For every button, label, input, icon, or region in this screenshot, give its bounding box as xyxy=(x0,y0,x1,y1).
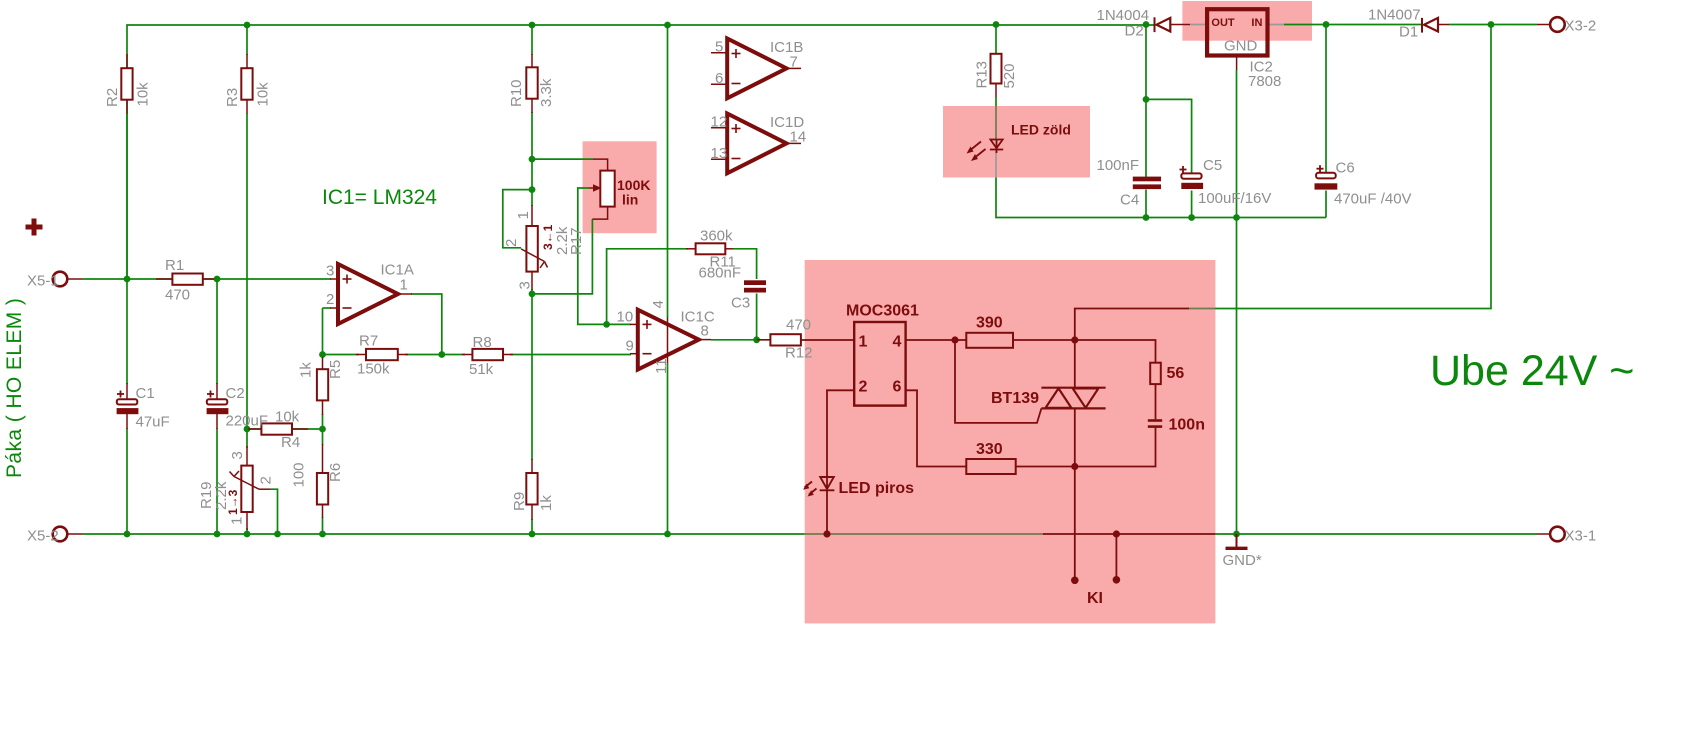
svg-text:OUT: OUT xyxy=(1211,17,1235,29)
svg-text:C5: C5 xyxy=(1203,157,1222,174)
wire: C5 branch xyxy=(1146,99,1192,173)
wire gate branch xyxy=(955,340,1041,423)
capacitor C2 220uF xyxy=(216,383,218,400)
wire: bottom rail under pink box (olive) xyxy=(805,533,1043,535)
wire LED piros to rail xyxy=(826,477,828,490)
resistor R13 520 xyxy=(995,53,997,56)
svg-text:470: 470 xyxy=(786,317,811,334)
svg-text:10k: 10k xyxy=(255,82,272,107)
node rail C2 xyxy=(214,531,221,538)
wire 56 to 100n xyxy=(1155,384,1157,419)
node R17 pin1/wiper xyxy=(529,186,536,193)
node rail GND xyxy=(1233,531,1240,538)
wire: 100K bottom route xyxy=(532,219,592,294)
wire: IC1A pin2 horizontal xyxy=(323,307,332,309)
wire: C4/C5/C6 bottom rail xyxy=(1146,217,1326,219)
wire triac MT2 down through 330 node to rail and KI xyxy=(1074,408,1076,580)
svg-text:lin: lin xyxy=(622,192,638,208)
diode D2 1N4004 xyxy=(1154,17,1156,32)
svg-text:680nF: 680nF xyxy=(699,265,742,282)
svg-text:14: 14 xyxy=(790,129,807,146)
node C4 rail xyxy=(1143,214,1150,221)
capacitor C1 47uF xyxy=(126,383,128,400)
wire 100n bottom to 330 node xyxy=(1075,428,1156,467)
svg-text:3.3k: 3.3k xyxy=(538,78,555,107)
svg-text:47uF: 47uF xyxy=(136,414,170,431)
wire: top +24V rail xyxy=(127,25,1154,279)
potentiometer R19 2.2k xyxy=(246,446,248,466)
svg-text:2: 2 xyxy=(503,239,520,247)
svg-text:GND*: GND* xyxy=(1223,552,1262,569)
svg-text:100nF: 100nF xyxy=(1097,157,1140,174)
svg-text:R7: R7 xyxy=(359,333,378,350)
resistor R8 51k xyxy=(462,354,472,356)
node top rail at D2 xyxy=(1143,21,1150,28)
wire: R13 column xyxy=(995,25,997,55)
svg-text:C1: C1 xyxy=(136,385,155,402)
node rail wiper xyxy=(274,531,281,538)
potentiometer 100K lin (overlay) xyxy=(593,159,608,171)
wire: D2 to IC2 OUT (grey pin segment) xyxy=(1190,24,1207,26)
wire: R13 to LED (olive under pink) xyxy=(995,106,997,140)
wire stubs IC1C out xyxy=(805,339,807,341)
svg-text:150k: 150k xyxy=(357,361,390,378)
svg-text:R8: R8 xyxy=(473,334,492,351)
svg-text:10: 10 xyxy=(617,309,634,326)
node top rail at R13 xyxy=(993,21,1000,28)
wire snubber top xyxy=(1075,340,1156,363)
node top rail at X3-2 drop xyxy=(1488,21,1495,28)
highlight box 100K lin xyxy=(583,141,657,233)
resistor R9 1k xyxy=(531,459,533,474)
svg-text:3: 3 xyxy=(229,451,246,459)
terminal X3-2 xyxy=(1550,17,1565,32)
terminal X5-2 xyxy=(53,527,68,542)
wire: C6 column xyxy=(1325,25,1327,173)
svg-text:R4: R4 xyxy=(281,434,300,451)
svg-text:IC1B: IC1B xyxy=(770,39,803,56)
svg-text:IC1= LM324: IC1= LM324 xyxy=(322,186,437,209)
svg-text:1→3: 1→3 xyxy=(226,489,240,515)
svg-text:2: 2 xyxy=(859,379,868,396)
svg-text:360k: 360k xyxy=(700,228,733,245)
wire 390 to triac top junction xyxy=(1013,339,1075,341)
node C4 branch xyxy=(1143,96,1150,103)
node R7 left xyxy=(319,351,326,358)
svg-text:1N4007: 1N4007 xyxy=(1368,7,1421,24)
LED piros symbol xyxy=(805,477,835,495)
svg-text:1: 1 xyxy=(400,277,408,294)
wire: IC1 power column pin4/pin11 xyxy=(667,25,669,317)
wire: R10 bottom to junctions xyxy=(531,112,533,206)
svg-text:1: 1 xyxy=(229,517,246,525)
svg-text:R5: R5 xyxy=(327,360,344,379)
svg-text:5: 5 xyxy=(715,39,723,56)
svg-text:10k: 10k xyxy=(275,409,300,426)
grey reference texts xyxy=(27,7,1596,570)
IC2 7808 regulator box xyxy=(1207,9,1267,55)
svg-text:8: 8 xyxy=(701,323,709,340)
svg-text:220uF: 220uF xyxy=(226,413,269,430)
resistor R2 10k xyxy=(126,54,128,68)
resistor 330 xyxy=(966,459,1015,474)
svg-text:R9: R9 xyxy=(511,492,528,511)
svg-text:1: 1 xyxy=(515,211,532,219)
node IC1C plus xyxy=(603,321,610,328)
svg-text:3: 3 xyxy=(517,281,534,289)
resistor R5 1k xyxy=(322,357,324,370)
svg-text:BT139: BT139 xyxy=(991,390,1039,407)
svg-text:100n: 100n xyxy=(1169,417,1205,434)
wire KI right stub xyxy=(1115,534,1117,580)
wire: R11 right to C3 xyxy=(733,249,757,279)
wire: X3-2 drop inside pink (olive) xyxy=(1189,308,1215,310)
svg-text:R2: R2 xyxy=(104,88,121,107)
resistor R7 150k xyxy=(356,354,366,356)
svg-text:51k: 51k xyxy=(469,361,494,378)
svg-text:10k: 10k xyxy=(135,82,152,107)
node 330/snubber junction xyxy=(1071,463,1078,470)
resistor R10 3.3k xyxy=(531,54,533,68)
wire: IC1C+ junction up to R11 xyxy=(607,249,688,325)
op-amp IC1B (spare) xyxy=(727,39,786,99)
svg-text:X3-2: X3-2 xyxy=(1565,18,1597,35)
node R4 left xyxy=(244,426,251,433)
wire: IC1A output down xyxy=(411,294,442,355)
node top rail at IC1 pwr xyxy=(664,22,671,29)
svg-text:470uF /40V: 470uF /40V xyxy=(1334,191,1412,208)
op-amp IC1A xyxy=(338,264,398,324)
svg-text:7: 7 xyxy=(790,54,798,71)
node IC1C out xyxy=(753,336,760,343)
node X5-1 at C1 xyxy=(124,276,131,283)
capacitor C3 680nF xyxy=(744,280,766,285)
capacitor C4 100nF xyxy=(1133,177,1161,182)
highlight box LED zold xyxy=(943,106,1090,178)
svg-text:LED zöld: LED zöld xyxy=(1011,122,1071,138)
op-amp IC1C xyxy=(638,310,699,370)
svg-text:R10: R10 xyxy=(508,79,525,107)
node GND col rail xyxy=(1233,214,1240,221)
wire: bottom rail right of box to X3-1 xyxy=(1215,533,1537,535)
node rail R19 xyxy=(244,531,251,538)
resistor R4 10k xyxy=(248,428,261,430)
svg-text:X3-1: X3-1 xyxy=(1565,528,1597,545)
svg-text:D1: D1 xyxy=(1399,24,1418,41)
svg-text:11: 11 xyxy=(653,358,670,374)
svg-text:C6: C6 xyxy=(1336,160,1355,177)
node 390 left junction xyxy=(951,336,958,343)
node R7/R8 xyxy=(438,351,445,358)
svg-text:4: 4 xyxy=(893,334,902,351)
wire: R19 bottom to rail xyxy=(246,528,248,534)
svg-text:3: 3 xyxy=(326,263,334,280)
node R10 bottom xyxy=(529,156,536,163)
wire: R2/C1 column xyxy=(126,113,128,384)
svg-text:Ube 24V ~: Ube 24V ~ xyxy=(1430,347,1634,395)
svg-text:4: 4 xyxy=(650,300,667,308)
node R4 right xyxy=(319,426,326,433)
MOC3061 chip box xyxy=(854,322,905,406)
svg-text:330: 330 xyxy=(976,441,1003,458)
wire pin4 to 390 xyxy=(906,339,967,341)
node top rail at R3 xyxy=(244,22,251,29)
terminal X5-1 xyxy=(53,272,68,287)
node top rail at R10 xyxy=(529,22,536,29)
triac BT139 xyxy=(1041,388,1105,409)
wire: junction to 100K top xyxy=(532,158,593,160)
resistor R11 360k xyxy=(686,243,734,254)
wire: R4 row xyxy=(247,428,323,430)
highlight box MOC/triac subcircuit xyxy=(805,260,1216,623)
svg-text:390: 390 xyxy=(976,315,1003,332)
wire: R10 column top xyxy=(531,25,533,55)
node rail IC1 pwr xyxy=(664,531,671,538)
node rail C1 xyxy=(124,531,131,538)
node rail R6 xyxy=(319,531,326,538)
wire: R17 wiper loop xyxy=(503,190,532,248)
wire: IC2 IN grey pin segment xyxy=(1268,24,1285,26)
capacitor C6 470uF/40V xyxy=(1316,173,1336,179)
svg-text:100uF/16V: 100uF/16V xyxy=(1198,190,1271,207)
wire: X3-2 drop to MOC box xyxy=(1215,25,1491,309)
svg-text:6: 6 xyxy=(715,70,723,87)
wire: LED zold bottom pin (grey under pink) xyxy=(995,151,997,178)
resistor R12 470 xyxy=(757,339,771,341)
svg-text:KI: KI xyxy=(1087,590,1103,607)
svg-text:2: 2 xyxy=(258,476,275,484)
wire R12 to pin1 xyxy=(801,339,854,341)
wire: C2 column xyxy=(216,279,218,384)
svg-text:12: 12 xyxy=(711,114,728,131)
svg-text:1k: 1k xyxy=(538,495,555,511)
svg-text:100: 100 xyxy=(291,462,308,487)
node top rail at C6 xyxy=(1323,21,1330,28)
svg-text:13: 13 xyxy=(711,145,728,162)
svg-text:C3: C3 xyxy=(731,295,750,312)
svg-text:1k: 1k xyxy=(298,362,315,378)
diode D1 1N4007 xyxy=(1421,18,1423,33)
node KI right junction xyxy=(1113,530,1120,537)
plus sign xyxy=(26,219,43,236)
svg-text:7808: 7808 xyxy=(1248,73,1281,90)
svg-text:X5-1: X5-1 xyxy=(27,273,59,290)
resistor R3 10k xyxy=(246,54,248,68)
svg-text:GND: GND xyxy=(1224,38,1258,55)
resistor 56 xyxy=(1150,363,1161,384)
wire: IN to C6 junction to D1 xyxy=(1284,24,1421,26)
wire: R7/R8 row xyxy=(323,354,360,356)
wire: R5/R6/IC1A- column xyxy=(322,308,324,358)
wire: 100K wiper down to IC1C+ xyxy=(578,188,631,324)
wire: R17 pin3 down / R9 column xyxy=(531,289,533,460)
svg-text:C2: C2 xyxy=(226,385,245,402)
svg-text:Páka ( HO ELEM ): Páka ( HO ELEM ) xyxy=(3,298,26,478)
wire: LED zold to C4 rail xyxy=(996,178,1146,218)
wire: IC1C output to R12 xyxy=(711,339,770,341)
svg-text:R17: R17 xyxy=(568,227,585,255)
potentiometer R17 2.2k xyxy=(531,205,533,227)
svg-text:IC1C: IC1C xyxy=(681,309,715,326)
wire triac column from entry corner xyxy=(1075,309,1189,388)
svg-text:IC1A: IC1A xyxy=(381,262,414,279)
node X5-1 at C2 xyxy=(214,276,221,283)
LED zold symbol (overlay) xyxy=(969,140,1004,160)
svg-text:C4: C4 xyxy=(1120,192,1139,209)
svg-text:470: 470 xyxy=(165,287,190,304)
svg-text:X5-2: X5-2 xyxy=(27,528,59,545)
wire: IC2 GND column xyxy=(1236,70,1238,534)
ground symbol GND* xyxy=(1236,534,1238,547)
svg-text:2: 2 xyxy=(326,291,334,308)
capacitor C5 100uF/16V xyxy=(1181,173,1201,178)
svg-text:1N4004: 1N4004 xyxy=(1097,7,1150,24)
svg-text:R3: R3 xyxy=(224,88,241,107)
svg-text:R6: R6 xyxy=(327,463,344,482)
svg-text:R1: R1 xyxy=(165,257,184,274)
resistor 390 xyxy=(966,333,1013,348)
node R17 pin3 xyxy=(529,291,536,298)
svg-text:R13: R13 xyxy=(974,61,991,89)
wire: D2 cathode junction column xyxy=(1145,25,1147,177)
capacitor 100n xyxy=(1148,421,1162,427)
node triac top junction xyxy=(1071,336,1078,343)
wire: C3 bottom to output node xyxy=(756,294,758,340)
highlight box IC2 regulator xyxy=(1182,1,1312,41)
wire: R3/R19 column xyxy=(246,25,248,55)
junction dots (green) xyxy=(124,21,1495,537)
wire pin6 to 330 xyxy=(906,390,967,466)
node C5 rail xyxy=(1188,214,1195,221)
op-amp IC1D (spare) xyxy=(727,114,786,174)
svg-text:LED piros: LED piros xyxy=(839,480,915,497)
svg-text:D2: D2 xyxy=(1125,23,1144,40)
node LED piros rail xyxy=(823,530,830,537)
svg-text:9: 9 xyxy=(626,338,634,355)
svg-text:520: 520 xyxy=(1001,63,1018,88)
node rail R9 xyxy=(529,531,536,538)
wire: R19 wiper tap xyxy=(270,489,278,534)
wire 330 to node xyxy=(1016,466,1075,468)
svg-text:MOC3061: MOC3061 xyxy=(846,303,919,320)
svg-text:IN: IN xyxy=(1251,17,1262,29)
wire: D1 to X3-2 xyxy=(1449,24,1537,26)
svg-text:1: 1 xyxy=(859,334,868,351)
svg-text:R12: R12 xyxy=(785,345,813,362)
svg-text:56: 56 xyxy=(1167,365,1185,382)
KI terminal dots xyxy=(1071,577,1079,585)
wire: bottom X5-2 rail xyxy=(82,533,805,535)
resistor R1 470 xyxy=(156,278,172,280)
terminal X3-1 xyxy=(1550,527,1565,542)
wire maroon rail segment xyxy=(1043,533,1215,535)
wire: X5-1 row xyxy=(82,278,331,280)
resistor R6 100 xyxy=(322,444,324,474)
svg-text:6: 6 xyxy=(893,379,902,396)
wire pin2 to LED piros xyxy=(827,390,854,477)
svg-text:3←1: 3←1 xyxy=(541,224,555,250)
